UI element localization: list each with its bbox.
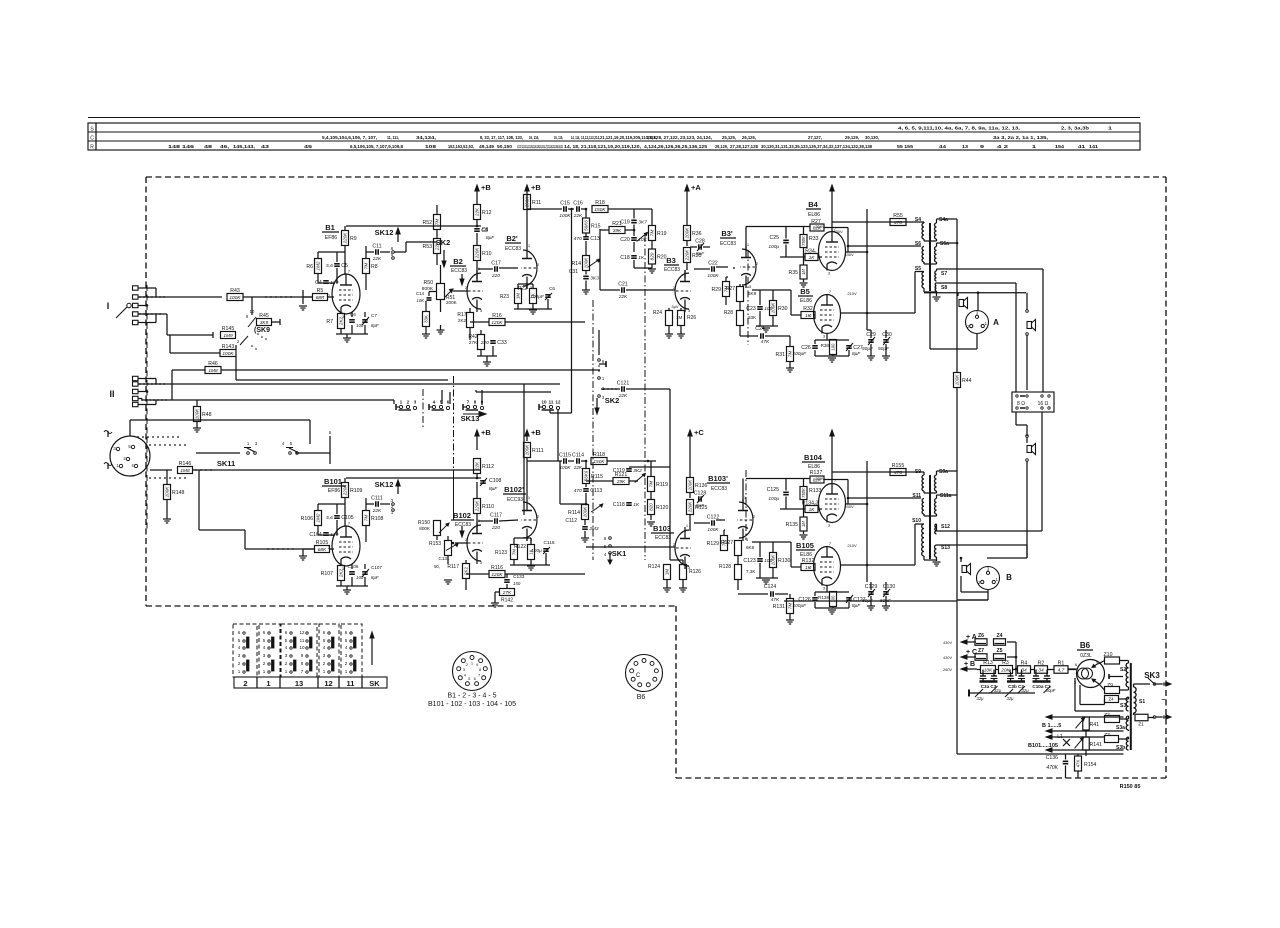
svg-text:7M: 7M [435, 219, 440, 226]
svg-text:32μ: 32μ [977, 696, 985, 701]
svg-text:C107: C107 [371, 565, 382, 570]
svg-text:1M: 1M [801, 269, 806, 275]
svg-text:B103: B103 [653, 524, 671, 533]
svg-text:C4: C4 [315, 280, 322, 286]
svg-text:R29: R29 [711, 287, 721, 293]
svg-text:B104: B104 [804, 453, 823, 462]
svg-text:S12: S12 [941, 524, 950, 530]
svg-text:43: 43 [261, 144, 270, 149]
svg-text:1K: 1K [805, 565, 812, 571]
svg-text:A: A [993, 318, 999, 327]
svg-text:120K: 120K [491, 572, 503, 578]
svg-text:C122: C122 [707, 514, 720, 520]
svg-text:R141: R141 [1090, 742, 1103, 748]
svg-text:100K: 100K [222, 351, 234, 357]
svg-text:10K: 10K [984, 668, 993, 674]
svg-text:R32: R32 [803, 306, 813, 312]
svg-text:27,28,127,128: 27,28,127,128 [730, 144, 758, 149]
svg-text:800K: 800K [419, 526, 431, 531]
svg-text:100μF: 100μF [792, 603, 807, 609]
svg-text:120: 120 [330, 532, 338, 538]
svg-text:100K: 100K [559, 213, 571, 219]
svg-text:Z4: Z4 [996, 633, 1002, 639]
svg-text:44: 44 [939, 144, 947, 149]
svg-text:C116: C116 [543, 540, 554, 546]
svg-text:EF86: EF86 [328, 488, 341, 494]
svg-text:10: 10 [250, 309, 255, 314]
svg-text:100K: 100K [559, 465, 571, 471]
svg-text:470: 470 [574, 236, 582, 242]
svg-text:4, 6, 5, 9,111,10, 4a, 6a, 7,: 4, 6, 5, 9,111,10, 4a, 6a, 7, 8, 9a, 11a… [898, 126, 1020, 131]
svg-text:R31: R31 [775, 352, 785, 358]
svg-text:7M: 7M [649, 481, 654, 488]
svg-text:120: 120 [330, 280, 338, 286]
svg-text:22K: 22K [372, 508, 382, 514]
svg-text:C133: C133 [513, 574, 525, 580]
svg-text:B1 - 2 - 3 - 4 - 5: B1 - 2 - 3 - 4 - 5 [447, 693, 496, 700]
svg-text:B4: B4 [808, 200, 818, 209]
svg-text:R27: R27 [726, 286, 735, 292]
svg-text:220K: 220K [475, 247, 480, 260]
svg-text:B101: B101 [324, 477, 342, 486]
svg-text:100K: 100K [771, 554, 776, 566]
svg-text:50,150: 50,150 [497, 144, 512, 149]
svg-text:29,129,: 29,129, [845, 135, 859, 140]
svg-text:29,129,: 29,129, [715, 144, 728, 149]
svg-text:S3: S3 [1120, 703, 1126, 709]
svg-text:34,134,: 34,134, [416, 135, 436, 140]
svg-text:C117: C117 [490, 512, 502, 518]
svg-text:8μF: 8μF [852, 603, 861, 609]
svg-text:R38: R38 [821, 343, 830, 348]
svg-text:8, 33, 17, 117, 108, 133,: 8, 33, 17, 117, 108, 133, [480, 135, 523, 140]
svg-text:SK12: SK12 [375, 228, 394, 237]
svg-text:R30: R30 [778, 306, 788, 312]
svg-text:13: 13 [962, 144, 969, 149]
svg-text:27K: 27K [502, 590, 512, 596]
svg-text:47K: 47K [761, 339, 770, 345]
svg-text:220K: 220K [343, 484, 348, 497]
svg-text:R124: R124 [648, 564, 660, 570]
svg-text:EL86: EL86 [808, 212, 820, 218]
svg-text:210V: 210V [847, 291, 857, 296]
svg-text:430V: 430V [844, 252, 854, 257]
svg-text:C: C [636, 673, 641, 679]
svg-text:B6: B6 [1080, 641, 1091, 650]
svg-text:Z5: Z5 [996, 648, 1002, 654]
svg-text:6K8: 6K8 [746, 545, 755, 550]
svg-text:B103': B103' [708, 474, 728, 483]
svg-text:S2: S2 [1120, 667, 1126, 673]
svg-text:C124: C124 [764, 584, 777, 590]
svg-text:30,130,31,131,33,35,133,135,37: 30,130,31,131,33,35,133,135,37,34,32,137… [761, 144, 872, 149]
svg-text:260V: 260V [943, 668, 952, 672]
svg-text:R46: R46 [208, 361, 218, 367]
svg-text:C123: C123 [743, 558, 756, 564]
svg-text:R50: R50 [423, 280, 433, 286]
svg-text:ECC83: ECC83 [505, 246, 521, 252]
svg-text:R12: R12 [482, 210, 492, 216]
svg-text:R16: R16 [492, 313, 502, 319]
svg-text:220K: 220K [475, 500, 480, 513]
svg-text:C128: C128 [694, 490, 707, 496]
svg-text:SK12: SK12 [375, 480, 394, 489]
svg-text:C25: C25 [769, 235, 779, 241]
svg-text:Z10: Z10 [1104, 652, 1113, 658]
svg-text:1: 1 [1032, 144, 1037, 149]
svg-text:R145: R145 [222, 326, 235, 332]
svg-text:C136: C136 [1046, 755, 1059, 761]
svg-text:8 Ω: 8 Ω [1017, 401, 1025, 407]
svg-text:+B: +B [481, 183, 491, 192]
svg-text:12: 12 [556, 400, 561, 405]
svg-text:ECC83: ECC83 [720, 241, 736, 247]
svg-text:S8: S8 [941, 285, 947, 291]
svg-text:28,128, 27,122, 23,123, 24,124: 28,128, 27,122, 23,123, 24,124, [647, 135, 712, 140]
svg-text:100K: 100K [165, 486, 170, 498]
svg-text:22K: 22K [573, 465, 583, 471]
svg-text:22K: 22K [618, 393, 628, 399]
svg-text:R133: R133 [809, 488, 822, 494]
svg-text:S9a: S9a [939, 469, 948, 475]
svg-text:47K: 47K [771, 597, 780, 603]
svg-text:14, 18, 21,118,121,19,20,119,1: 14, 18, 21,118,121,19,20,119,120, [564, 144, 641, 149]
svg-text:R10: R10 [482, 251, 492, 257]
svg-text:C106: C106 [348, 564, 359, 569]
svg-text:R123: R123 [495, 550, 507, 556]
svg-text:ECC83: ECC83 [711, 486, 727, 492]
svg-text:C118: C118 [613, 502, 625, 508]
svg-text:230V: 230V [815, 224, 825, 229]
svg-text:R2: R2 [1038, 660, 1045, 666]
svg-text:R22: R22 [518, 286, 527, 292]
svg-text:25,125,: 25,125, [722, 135, 736, 140]
svg-text:R48: R48 [202, 412, 212, 418]
svg-text:R155: R155 [892, 463, 905, 469]
svg-text:4 2: 4 2 [997, 144, 1009, 149]
svg-text:100K: 100K [583, 506, 588, 518]
svg-text:C11: C11 [372, 243, 381, 249]
svg-text:34: 34 [1021, 668, 1027, 674]
svg-text:R107: R107 [321, 571, 334, 577]
svg-text:10: 10 [542, 400, 547, 405]
svg-text:56K6: 56K6 [584, 220, 589, 231]
svg-text:EL86: EL86 [800, 298, 812, 304]
svg-text:R44: R44 [962, 378, 972, 384]
svg-text:R146: R146 [179, 461, 192, 467]
svg-text:R126: R126 [689, 569, 701, 575]
svg-text:150: 150 [513, 581, 521, 586]
svg-text:470: 470 [894, 220, 902, 226]
svg-text:1M2: 1M2 [316, 261, 321, 270]
svg-text:145,143,: 145,143, [233, 144, 255, 149]
svg-text:R154: R154 [1084, 762, 1097, 768]
svg-text:1M8: 1M8 [180, 468, 190, 474]
svg-text:R110: R110 [482, 504, 494, 510]
svg-text:47K: 47K [1076, 760, 1081, 768]
svg-text:48: 48 [204, 144, 213, 149]
svg-text:R132: R132 [802, 558, 815, 564]
svg-text:11: 11 [300, 638, 305, 643]
svg-text:1K: 1K [805, 313, 812, 319]
svg-text:C15: C15 [560, 200, 570, 206]
svg-text:SK11: SK11 [217, 459, 235, 468]
svg-text:1M2: 1M2 [316, 513, 321, 522]
svg-text:R136: R136 [695, 483, 708, 489]
svg-text:C113: C113 [590, 488, 602, 494]
svg-text:R6: R6 [306, 264, 313, 270]
svg-text:100K: 100K [707, 527, 719, 533]
svg-text:R33: R33 [809, 236, 819, 242]
svg-text:R122: R122 [514, 544, 526, 550]
svg-text:R8: R8 [371, 264, 378, 270]
svg-text:220: 220 [491, 273, 500, 279]
svg-text:R130: R130 [778, 558, 791, 564]
svg-text:ECC83: ECC83 [455, 522, 471, 528]
svg-text:C114: C114 [572, 452, 584, 458]
svg-text:220K: 220K [685, 249, 690, 262]
svg-text:R23: R23 [500, 294, 509, 300]
svg-text:10K: 10K [417, 298, 425, 303]
svg-text:1K: 1K [809, 255, 816, 261]
svg-text:1K: 1K [633, 502, 640, 508]
svg-text:45: 45 [304, 144, 313, 149]
svg-text:22K: 22K [573, 213, 583, 219]
svg-text:8μF: 8μF [371, 323, 379, 328]
svg-text:C13: C13 [590, 236, 600, 242]
svg-text:100: 100 [831, 343, 836, 351]
svg-text:R105: R105 [316, 540, 329, 546]
svg-text:SK2: SK2 [605, 396, 620, 405]
svg-text:C8: C8 [482, 227, 489, 233]
svg-text:+B: +B [481, 428, 491, 437]
svg-text:C24: C24 [755, 326, 765, 332]
svg-text:10: 10 [299, 645, 305, 650]
svg-text:108: 108 [425, 144, 437, 149]
svg-text:13,12,113,212,: 13,12,113,212, [581, 135, 600, 140]
svg-text:S11a: S11a [940, 493, 952, 499]
svg-text:30,130,: 30,130, [865, 135, 879, 140]
svg-text:B2': B2' [506, 234, 518, 243]
svg-text:C126: C126 [798, 597, 811, 603]
svg-text:Z4: Z4 [1108, 697, 1114, 702]
svg-text:1: 1 [1108, 126, 1113, 131]
svg-text:8μF: 8μF [371, 575, 379, 580]
svg-text:C119: C119 [613, 468, 625, 474]
svg-text:C17: C17 [491, 260, 501, 266]
svg-text:2K2: 2K2 [458, 318, 467, 323]
svg-text:ECC83: ECC83 [664, 267, 680, 273]
svg-text:+A: +A [691, 183, 701, 192]
svg-text:R53: R53 [422, 244, 432, 250]
svg-text:1M9: 1M9 [223, 333, 233, 339]
svg-text:C108: C108 [489, 478, 502, 484]
svg-text:C23: C23 [746, 306, 756, 312]
svg-text:7,3K: 7,3K [746, 569, 756, 574]
svg-text:120K: 120K [491, 320, 503, 326]
svg-text:8μF: 8μF [489, 486, 498, 492]
svg-text:R35: R35 [788, 270, 798, 276]
svg-text:R3: R3 [1002, 660, 1009, 666]
svg-text:210V: 210V [847, 543, 857, 548]
svg-text:150K: 150K [593, 459, 605, 465]
svg-text:13: 13 [295, 679, 303, 688]
svg-text:12: 12 [299, 630, 305, 635]
svg-text:148 146: 148 146 [168, 144, 195, 149]
svg-text:7M: 7M [364, 263, 369, 270]
svg-text:C130: C130 [883, 584, 896, 590]
svg-text:R45: R45 [259, 313, 269, 319]
svg-text:49,149: 49,149 [479, 144, 494, 149]
svg-text:R109: R109 [350, 488, 363, 494]
svg-text:R135: R135 [786, 522, 799, 528]
svg-text:141: 141 [1089, 144, 1099, 149]
svg-text:2: 2 [243, 679, 247, 688]
svg-text:C6: C6 [350, 312, 356, 317]
svg-text:2K2: 2K2 [339, 316, 344, 326]
svg-text:R43: R43 [230, 288, 240, 294]
svg-text:R11: R11 [532, 200, 541, 206]
svg-text:SK3: SK3 [1144, 671, 1160, 680]
svg-text:S3a: S3a [1116, 725, 1125, 731]
svg-text:220K: 220K [343, 232, 348, 245]
svg-text:S13: S13 [941, 545, 950, 551]
svg-text:ECC83: ECC83 [655, 535, 671, 541]
svg-text:SK13: SK13 [461, 414, 480, 423]
svg-text:+B: +B [531, 183, 541, 192]
svg-text:SK2: SK2 [436, 238, 451, 247]
svg-text:R131: R131 [773, 604, 786, 610]
svg-text:470K: 470K [1046, 765, 1058, 771]
svg-text:R119: R119 [656, 482, 668, 488]
svg-text:3K7: 3K7 [638, 220, 647, 226]
svg-text:C104: C104 [309, 532, 322, 538]
svg-text:R148: R148 [172, 490, 185, 496]
svg-text:R106: R106 [301, 516, 314, 522]
svg-text:SK1: SK1 [612, 549, 627, 558]
svg-text:R118: R118 [593, 452, 605, 458]
svg-text:750K: 750K [801, 488, 806, 498]
svg-text:11, 111,: 11, 111, [387, 135, 399, 140]
svg-text:R111: R111 [532, 448, 544, 454]
svg-text:27K: 27K [469, 340, 478, 345]
svg-text:5,4,105,104,6,106, 7, 107,: 5,4,105,104,6,106, 7, 107, [322, 135, 377, 140]
svg-text:220: 220 [480, 340, 489, 346]
svg-text:0Z3L: 0Z3L [1080, 653, 1092, 659]
svg-text:56K6: 56K6 [584, 470, 589, 481]
svg-text:4,7: 4,7 [1058, 668, 1065, 674]
svg-text:27,127,: 27,127, [808, 135, 822, 140]
svg-text:B 1.....5: B 1.....5 [1042, 723, 1061, 729]
svg-text:3K2: 3K2 [633, 468, 642, 474]
svg-text:430V: 430V [943, 641, 952, 645]
svg-text:33K: 33K [424, 315, 429, 323]
svg-text:32μ: 32μ [1007, 696, 1015, 701]
svg-text:10K: 10K [638, 237, 647, 243]
svg-text:26,126,: 26,126, [742, 135, 756, 140]
svg-text:100μ: 100μ [531, 548, 542, 554]
svg-text:2K2: 2K2 [339, 568, 344, 578]
svg-text:15, 115,: 15, 115, [554, 135, 563, 140]
svg-text:100K: 100K [955, 374, 960, 386]
svg-text:R9: R9 [350, 236, 357, 242]
svg-text:68R: 68R [316, 295, 325, 301]
svg-text:B: B [1006, 573, 1012, 582]
svg-text:470: 470 [574, 488, 582, 494]
svg-text:22K: 22K [475, 207, 480, 217]
svg-text:SK: SK [369, 679, 380, 688]
svg-text:C33: C33 [497, 340, 507, 346]
svg-text:100K: 100K [195, 408, 200, 420]
svg-text:R153: R153 [429, 541, 441, 547]
svg-text:3K9: 3K9 [260, 320, 269, 326]
svg-text:R41: R41 [1090, 722, 1100, 728]
svg-text:29K: 29K [616, 479, 626, 485]
svg-text:R24: R24 [653, 310, 662, 316]
svg-text:68K: 68K [318, 547, 327, 553]
svg-text:8μF: 8μF [696, 503, 705, 509]
svg-text:C6: C6 [549, 286, 555, 291]
svg-text:C125: C125 [767, 487, 780, 493]
svg-text:C111: C111 [371, 495, 383, 501]
svg-text:R28: R28 [724, 310, 733, 316]
svg-text:B101 - 102 - 103 - 104 - 105: B101 - 102 - 103 - 104 - 105 [428, 701, 516, 708]
svg-text:100K: 100K [525, 444, 530, 456]
svg-text:4,124,26,126,36,25,136,125: 4,124,26,126,36,25,136,125 [644, 144, 707, 149]
svg-text:100μF: 100μF [792, 351, 807, 357]
svg-text:R13: R13 [983, 660, 993, 666]
svg-text:46,: 46, [220, 144, 229, 149]
svg-text:+ B: + B [964, 661, 975, 668]
svg-text:R150 85: R150 85 [1120, 784, 1141, 790]
svg-text:22K: 22K [618, 294, 628, 300]
svg-text:R20: R20 [657, 255, 667, 261]
svg-text:3M3: 3M3 [589, 526, 599, 532]
svg-text:R112: R112 [482, 464, 494, 470]
svg-text:152,153,52,53,: 152,153,52,53, [448, 144, 474, 149]
svg-text:100K: 100K [707, 273, 719, 279]
svg-text:220: 220 [491, 525, 500, 531]
svg-text:3a 3, 2a 2, 1a 1, 135,: 3a 3, 2a 2, 1a 1, 135, [993, 135, 1048, 140]
svg-text:ECC93: ECC93 [507, 497, 523, 503]
svg-text:C21: C21 [618, 281, 628, 287]
svg-text:C112: C112 [565, 518, 577, 524]
svg-text:5,6: 5,6 [326, 263, 333, 269]
svg-text:S4a: S4a [939, 217, 948, 223]
svg-text:B1: B1 [325, 223, 335, 232]
svg-text:17,117,12,10,11,21,104,2,16,11: 17,117,12,10,11,21,104,2,16,116,23,123,4… [517, 144, 563, 149]
svg-text:39K: 39K [613, 228, 622, 234]
svg-text:I: I [107, 301, 110, 311]
svg-text:C115: C115 [559, 452, 571, 458]
svg-text:430V: 430V [833, 229, 843, 234]
svg-text:R4: R4 [1021, 660, 1028, 666]
svg-text:100K: 100K [685, 227, 690, 239]
svg-text:1K: 1K [809, 507, 816, 513]
svg-text:820: 820 [650, 252, 655, 260]
svg-text:16, 116,: 16, 116, [529, 135, 539, 140]
svg-text:ECC83: ECC83 [451, 268, 467, 274]
svg-text:R18: R18 [595, 200, 605, 206]
svg-text:C31: C31 [569, 269, 578, 275]
svg-text:5,6: 5,6 [326, 515, 333, 521]
svg-text:34: 34 [1038, 668, 1044, 674]
svg-text:16 Ω: 16 Ω [1038, 401, 1049, 407]
svg-text:100K: 100K [688, 479, 693, 491]
svg-text:R108: R108 [371, 516, 384, 522]
svg-text:750K: 750K [801, 236, 806, 246]
svg-text:S1: S1 [1139, 699, 1145, 705]
